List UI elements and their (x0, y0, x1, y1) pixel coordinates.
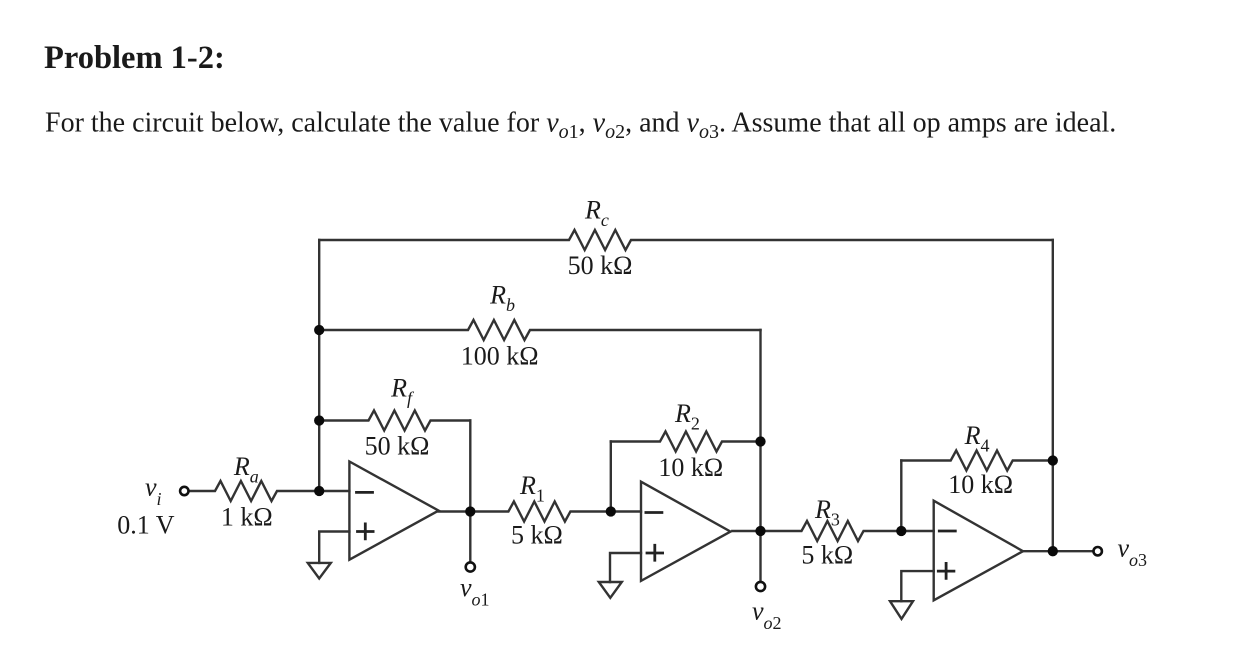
svg-text:0.1 V: 0.1 V (117, 511, 175, 540)
svg-text:50 kΩ: 50 kΩ (568, 251, 633, 280)
svg-text:Problem 1-2:: Problem 1-2: (44, 40, 225, 76)
svg-text:50 kΩ: 50 kΩ (365, 431, 430, 460)
svg-text:10 kΩ: 10 kΩ (658, 453, 723, 482)
svg-text:1 kΩ: 1 kΩ (221, 502, 273, 531)
svg-text:100 kΩ: 100 kΩ (461, 342, 539, 371)
svg-text:5 kΩ: 5 kΩ (801, 541, 853, 570)
svg-text:5 kΩ: 5 kΩ (511, 521, 563, 550)
svg-text:10 kΩ: 10 kΩ (948, 470, 1013, 499)
svg-text:For the circuit below, calcula: For the circuit below, calculate the val… (45, 108, 1116, 144)
